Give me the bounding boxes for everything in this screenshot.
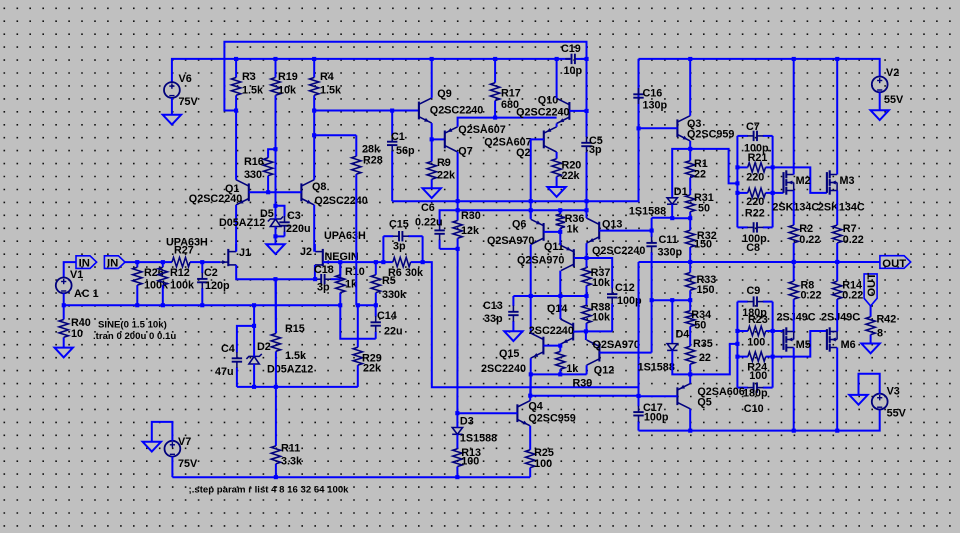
- junction: [421, 260, 425, 264]
- jfet J2: [300, 246, 331, 266]
- junction: [585, 109, 589, 113]
- svg-text:2SK134C: 2SK134C: [772, 202, 819, 214]
- svg-text:1S1588: 1S1588: [638, 362, 675, 374]
- capacitor C6: [415, 202, 445, 249]
- junction: [312, 109, 316, 113]
- svg-text:220: 220: [746, 172, 764, 184]
- wire Q15 emitter stub: [530, 358, 532, 396]
- svg-text:0.22: 0.22: [842, 289, 863, 301]
- wire Q11 emitter stub: [559, 232, 561, 246]
- transistor Q15: [481, 333, 543, 375]
- svg-text:10k: 10k: [592, 312, 611, 324]
- junction: [555, 57, 559, 61]
- wire negin branch down: [423, 262, 639, 387]
- svg-text:1.5k: 1.5k: [242, 85, 264, 97]
- wire Q9 emitter to Q7 base: [432, 123, 445, 139]
- resistor R15: [271, 279, 307, 387]
- svg-text:Q7: Q7: [458, 146, 472, 158]
- wire Q4 base row: [457, 412, 517, 414]
- svg-text:V2: V2: [886, 67, 899, 79]
- mosfet M5: [784, 327, 811, 351]
- capacitor C1: [387, 111, 415, 202]
- svg-text:Q12: Q12: [594, 365, 614, 377]
- svg-text:Q14: Q14: [547, 303, 567, 315]
- junction: [135, 303, 139, 307]
- wire Q5 base row: [639, 395, 678, 397]
- resistor R10: [336, 262, 365, 305]
- wire Q14 base row: [573, 330, 586, 332]
- resistor R38: [582, 296, 611, 332]
- junction: [161, 260, 165, 264]
- resistor R5: [371, 262, 407, 305]
- port flag IN2: [104, 256, 125, 270]
- svg-text:22k: 22k: [363, 363, 382, 375]
- junction: [62, 303, 66, 307]
- svg-text:SINE(0 1.5 10k): SINE(0 1.5 10k): [98, 320, 167, 331]
- svg-text:Q2SA970: Q2SA970: [517, 255, 564, 267]
- resistor R8: [789, 262, 822, 332]
- svg-text:55V: 55V: [887, 408, 907, 420]
- wire M6 drain: [836, 348, 838, 431]
- transistor Q13: [586, 218, 645, 257]
- resistor R29: [353, 305, 382, 387]
- svg-text:R3: R3: [242, 71, 256, 83]
- resistor R16: [244, 153, 273, 193]
- svg-text:V7: V7: [178, 436, 191, 448]
- svg-text:Q13: Q13: [602, 219, 622, 231]
- wire C11 corner: [652, 217, 673, 219]
- wire ladder top jog: [690, 149, 737, 184]
- svg-text:UPA63H: UPA63H: [324, 230, 366, 242]
- resistor R11: [271, 387, 303, 477]
- junction: [792, 260, 796, 264]
- wire M3 drain: [836, 59, 838, 175]
- wire D4 bottom: [672, 350, 690, 374]
- wire Q12 emitter stub: [585, 331, 587, 340]
- wire Q8 collector: [313, 111, 315, 180]
- ground: [163, 115, 181, 125]
- svg-text:Q6: Q6: [512, 219, 526, 231]
- resistor R2: [789, 191, 820, 263]
- junction: [273, 57, 277, 61]
- wire V7 plus to ground: [152, 422, 173, 442]
- svg-text:1S1588: 1S1588: [629, 206, 666, 218]
- zener diode D5: [219, 208, 283, 229]
- svg-text:J1: J1: [239, 247, 251, 259]
- svg-text:Q2: Q2: [516, 147, 530, 159]
- svg-text:OUT: OUT: [866, 273, 878, 297]
- transistor Q4: [517, 401, 575, 426]
- junction: [356, 303, 360, 307]
- svg-text:OUT: OUT: [882, 258, 906, 270]
- junction: [374, 303, 378, 307]
- wire top rail right: [639, 59, 880, 77]
- svg-text:IN: IN: [79, 258, 90, 270]
- wire D4 row: [652, 299, 691, 301]
- svg-text:22k: 22k: [437, 170, 456, 182]
- resistor R4: [310, 59, 343, 111]
- wire Q15 base row: [543, 345, 560, 347]
- capacitor C13: [483, 296, 519, 331]
- junction: [273, 234, 277, 238]
- junction: [455, 411, 459, 415]
- wire out col down: [638, 262, 640, 396]
- wire V6 to ground: [171, 98, 173, 115]
- resistor R7: [833, 191, 864, 263]
- capacitor C14: [371, 305, 403, 339]
- svg-text:M3: M3: [840, 175, 855, 187]
- svg-text:C9: C9: [747, 285, 761, 297]
- voltage source V2: [872, 67, 904, 106]
- wire Q5 emitter stub: [689, 374, 691, 383]
- svg-text:100: 100: [747, 337, 765, 349]
- svg-text:0.22: 0.22: [801, 289, 822, 301]
- wire Q1 emitter to J1: [235, 205, 237, 252]
- wire J2 source: [314, 265, 316, 279]
- junction: [585, 199, 589, 203]
- svg-text:10k: 10k: [592, 277, 611, 289]
- svg-text:C12: C12: [615, 282, 635, 294]
- voltage source V3: [872, 386, 907, 420]
- resistor R30: [453, 210, 481, 249]
- wire D2 bottom lead: [253, 364, 255, 387]
- junction: [252, 385, 256, 389]
- wire ladder bot jog: [690, 344, 737, 375]
- wire base row Q1-Q8: [249, 191, 302, 193]
- svg-text:D2: D2: [257, 341, 271, 353]
- ground: [849, 395, 867, 405]
- capacitor C3: [279, 210, 310, 236]
- mosfet M2: [784, 170, 811, 194]
- svg-text:50: 50: [698, 203, 710, 215]
- svg-text:150: 150: [697, 284, 715, 296]
- wire R15 tail column: [275, 279, 277, 333]
- wire D4 top lead: [671, 300, 673, 343]
- svg-text:Q2SC2240: Q2SC2240: [314, 195, 367, 207]
- junction: [529, 294, 533, 298]
- svg-text:R21: R21: [748, 152, 768, 164]
- svg-text:180p: 180p: [743, 388, 768, 400]
- junction: [338, 260, 342, 264]
- junction: [430, 137, 434, 141]
- junction: [455, 475, 459, 479]
- svg-text:R10: R10: [345, 266, 365, 278]
- svg-text:150: 150: [694, 239, 712, 251]
- wire Q8 emitter to J2: [313, 205, 315, 252]
- junction: [688, 429, 692, 433]
- capacitor C8: [737, 222, 772, 254]
- wire Q14 collector stub: [559, 296, 561, 319]
- svg-text:0.22: 0.22: [799, 234, 820, 246]
- resistor R3: [231, 59, 264, 111]
- junction: [338, 303, 342, 307]
- svg-text:220: 220: [746, 196, 764, 208]
- wire lower ladder left vert: [736, 302, 738, 388]
- svg-text:R42: R42: [877, 314, 897, 326]
- svg-text:R30: R30: [461, 210, 481, 222]
- svg-text:10: 10: [71, 328, 83, 340]
- svg-text:R26: R26: [144, 267, 164, 279]
- junction: [688, 372, 692, 376]
- junction: [234, 109, 238, 113]
- svg-text:Q5: Q5: [697, 397, 711, 409]
- transistor Q6: [487, 219, 544, 248]
- svg-text:R12: R12: [170, 267, 190, 279]
- svg-text:M5: M5: [796, 339, 811, 351]
- wire negative rail: [639, 410, 880, 431]
- voltage source V1: [56, 269, 99, 300]
- svg-text:1k: 1k: [567, 224, 580, 236]
- svg-text:130p: 130p: [643, 100, 668, 112]
- svg-text:3.3k: 3.3k: [281, 456, 303, 468]
- junction: [771, 355, 775, 359]
- capacitor C16: [633, 59, 667, 128]
- junction: [735, 355, 739, 359]
- junction: [585, 208, 589, 212]
- svg-text:R16: R16: [244, 156, 264, 168]
- svg-text:R4: R4: [320, 71, 334, 83]
- svg-text:.tran 0 200u 0 0.1u: .tran 0 200u 0 0.1u: [93, 331, 176, 342]
- svg-text:120p: 120p: [205, 280, 230, 292]
- junction: [456, 199, 460, 203]
- junction: [771, 329, 775, 333]
- wire M2 drain: [793, 59, 795, 175]
- svg-text:C4: C4: [221, 343, 235, 355]
- svg-text:R28: R28: [363, 155, 383, 167]
- wire Q13 base row: [599, 230, 651, 232]
- junction: [430, 57, 434, 61]
- svg-text:Q10: Q10: [538, 95, 558, 107]
- svg-text:2SK134C: 2SK134C: [818, 202, 865, 214]
- capacitor C4: [215, 343, 242, 387]
- svg-text:100k: 100k: [144, 280, 169, 292]
- junction: [529, 199, 533, 203]
- ground: [143, 442, 161, 452]
- svg-text:D05AZ12: D05AZ12: [267, 364, 313, 376]
- svg-text:R35: R35: [693, 338, 713, 350]
- svg-text:100: 100: [534, 458, 552, 470]
- wire Q3 collector: [689, 59, 691, 116]
- jfet J1: [220, 247, 251, 266]
- capacitor C9: [737, 285, 772, 319]
- wire Q4 emitter stub: [529, 426, 531, 449]
- zener diode D2: [246, 341, 313, 376]
- ground: [861, 344, 879, 354]
- svg-text:C16: C16: [643, 88, 663, 100]
- wire C6 jog top: [440, 210, 458, 224]
- capacitor C7: [737, 121, 772, 155]
- svg-text:Q15: Q15: [499, 348, 519, 360]
- wire out rail: [639, 261, 880, 263]
- wire D5 leads: [275, 206, 277, 219]
- wire C18 up to gate row: [339, 262, 341, 279]
- junction: [585, 57, 589, 61]
- junction: [200, 260, 204, 264]
- svg-text:D1: D1: [674, 186, 688, 198]
- junction: [274, 475, 278, 479]
- svg-text:0.22u: 0.22u: [415, 217, 443, 229]
- svg-text:V6: V6: [179, 73, 192, 85]
- wire J2 drain: [314, 244, 316, 252]
- wire D2 top lead: [253, 326, 255, 357]
- wire Q6 collector col: [530, 245, 532, 334]
- svg-text:Q9: Q9: [437, 88, 451, 100]
- wire M2 gate row: [773, 192, 784, 194]
- junction: [273, 277, 277, 281]
- svg-text:22k: 22k: [562, 170, 581, 182]
- svg-text:Q2SC2240: Q2SC2240: [189, 193, 242, 205]
- wire Q2 base col: [531, 139, 544, 218]
- svg-text:2SC2240: 2SC2240: [481, 363, 526, 375]
- junction: [688, 57, 692, 61]
- junction: [493, 116, 497, 120]
- resistor R32: [686, 218, 717, 262]
- resistor R34: [686, 300, 712, 337]
- wire D1 bottom: [672, 204, 690, 218]
- junction: [374, 260, 378, 264]
- junction: [650, 229, 654, 233]
- svg-text:C18: C18: [314, 264, 334, 276]
- resistor R23: [737, 314, 772, 349]
- junction: [637, 126, 641, 130]
- junction: [637, 394, 641, 398]
- diode D1: [629, 186, 688, 218]
- svg-text:C19: C19: [561, 43, 581, 55]
- wire C4 branch: [237, 326, 254, 352]
- transistor Q14: [529, 303, 574, 344]
- wire D5 node branch: [276, 206, 285, 217]
- wire Q9 collector: [431, 59, 433, 98]
- transistor Q3: [677, 116, 734, 141]
- svg-text:R39: R39: [573, 378, 593, 390]
- junction: [312, 57, 316, 61]
- wire Q11 base row: [574, 257, 587, 259]
- wire fb node row: [358, 304, 376, 306]
- svg-text:56p: 56p: [396, 145, 415, 157]
- junction: [688, 260, 692, 264]
- mosfet M3: [827, 170, 855, 194]
- wire Q12 collector stub: [586, 365, 588, 374]
- capacitor C5: [581, 111, 603, 201]
- svg-text:R27: R27: [174, 245, 194, 257]
- junction: [273, 204, 277, 208]
- junction: [528, 394, 532, 398]
- capacitor C19: [561, 43, 587, 77]
- junction: [688, 147, 692, 151]
- svg-text:IN: IN: [107, 258, 118, 270]
- svg-text:220u: 220u: [286, 223, 311, 235]
- wire VAS row: [458, 59, 639, 201]
- svg-text:100k: 100k: [170, 280, 195, 292]
- wire R27 to J1 gate: [202, 261, 220, 263]
- wire bias rail: [530, 395, 638, 397]
- wire Q13 collector stub: [586, 210, 588, 218]
- transistor Q9: [419, 88, 483, 123]
- junction: [835, 57, 839, 61]
- svg-text:R17: R17: [501, 88, 521, 100]
- junction: [670, 216, 674, 220]
- wire R3 bypass rail: [224, 42, 586, 111]
- port flag IN1: [76, 256, 97, 270]
- svg-text:1k: 1k: [566, 363, 579, 375]
- transistor Q11: [517, 241, 574, 271]
- junction: [835, 260, 839, 264]
- svg-text:30k: 30k: [405, 267, 424, 279]
- svg-text:330k: 330k: [382, 289, 407, 301]
- resistor R21: [737, 152, 772, 184]
- svg-text:Q2SC2240: Q2SC2240: [592, 245, 645, 257]
- wire M5 drain: [793, 348, 795, 431]
- wire C19 to corner: [576, 58, 586, 60]
- wire M6 gate jog: [773, 331, 827, 357]
- svg-text:R22: R22: [745, 208, 765, 220]
- wire R28 top jog: [314, 134, 356, 136]
- svg-text:C15: C15: [389, 219, 409, 231]
- transistor Q8: [301, 180, 367, 207]
- wire R16 top jog: [268, 149, 275, 153]
- wire Q3 base row: [639, 127, 678, 129]
- junction: [161, 303, 165, 307]
- svg-text:2SJ49C: 2SJ49C: [777, 312, 816, 324]
- junction: [266, 190, 270, 194]
- junction: [529, 208, 533, 212]
- wire Q1 collector: [235, 111, 237, 180]
- svg-text:M6: M6: [841, 339, 856, 351]
- wire Q6 base row: [544, 231, 561, 233]
- wire bottom rail: [172, 476, 530, 478]
- wire ladder left vert: [736, 136, 738, 228]
- svg-text:1.5k: 1.5k: [320, 85, 342, 97]
- wire D2 node down: [253, 305, 255, 326]
- mosfet M6: [827, 327, 856, 351]
- wire cascode row: [458, 209, 587, 211]
- svg-text:0.22: 0.22: [843, 234, 864, 246]
- capacitor C2: [197, 262, 230, 305]
- junction: [735, 181, 739, 185]
- ground: [504, 331, 522, 341]
- voltage source V6: [164, 73, 199, 108]
- svg-text:3p: 3p: [589, 144, 602, 156]
- resistor R42: [866, 306, 896, 344]
- svg-text:3p: 3p: [393, 241, 406, 253]
- svg-text:8: 8: [877, 328, 883, 340]
- junction: [558, 372, 562, 376]
- junction: [252, 324, 256, 328]
- wire ladder right vert: [772, 136, 774, 228]
- svg-text:2SJ49C: 2SJ49C: [821, 312, 860, 324]
- svg-text:C2: C2: [204, 267, 218, 279]
- junction: [252, 303, 256, 307]
- diode D3: [452, 416, 497, 445]
- resistor R40: [59, 305, 91, 347]
- wire Q12 base row: [599, 352, 651, 354]
- wire V2 to ground: [879, 92, 881, 110]
- wire V3 plus to ground: [859, 374, 880, 395]
- junction: [792, 429, 796, 433]
- svg-text:22u: 22u: [384, 326, 403, 338]
- svg-text:330p: 330p: [658, 247, 683, 259]
- svg-text:R5: R5: [382, 275, 396, 287]
- svg-text:R11: R11: [281, 443, 300, 455]
- resistor R36: [556, 210, 585, 235]
- junction: [735, 342, 739, 346]
- svg-text:100p: 100p: [644, 412, 669, 424]
- wire Q4 collector stub: [529, 396, 531, 401]
- resistor R12: [158, 262, 195, 305]
- svg-text:C1: C1: [391, 131, 405, 143]
- wire D3 bottom: [456, 434, 458, 448]
- junction: [771, 191, 775, 195]
